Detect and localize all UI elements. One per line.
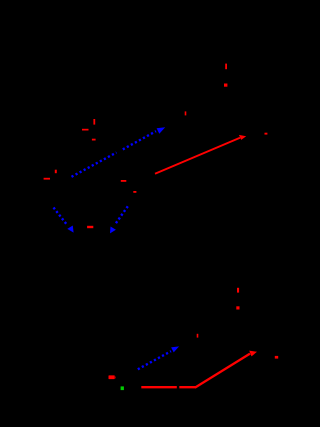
blue dashed proton-transfer arrow H2 (down-left) (110, 206, 128, 233)
molecule M6 hydroxyl O label (red) (236, 306, 239, 309)
blue dashed attack arrow M (lower-left to upper-right) (138, 346, 179, 369)
molecule M4 O-H half-bond mark (red) (185, 111, 187, 115)
molecule M5 O label (red) (121, 180, 127, 182)
molecule M7 O-H half-bond mark (red) (197, 334, 199, 338)
molecule M6 carbonyl C=O half-bond (red) (237, 288, 239, 293)
molecule M5 OH half-bond mark (red) (133, 191, 136, 193)
molecule M2 O half-bond mark (red) (92, 139, 96, 141)
HO label of attacking alcohol (red) (109, 375, 115, 379)
intermediate O label (red) (87, 226, 93, 228)
molecule M1 carbonyl C=O half-bond (red) (225, 64, 227, 70)
molecule M2 ester O label (red) (82, 129, 89, 131)
molecule M3 carbonyl half-bond (red) (55, 170, 57, 174)
Cl atom label (green) (121, 386, 124, 390)
product P1 O label (red) (265, 133, 268, 135)
red bent reaction arrow P (horizontal then up-right) (141, 351, 257, 388)
molecule M3 HO label (red) (44, 178, 50, 180)
molecule M1 hydroxyl O label (red) (224, 84, 227, 87)
product P2 O label (red) (275, 356, 278, 359)
molecule M2 carbonyl C=O half-bond (red) (93, 119, 95, 125)
blue dashed proton-transfer arrow H1 (down-right) (54, 208, 74, 233)
blue dashed attack arrow D (lower-left to upper-right) (72, 127, 166, 177)
red reaction arrow G (to upper right) (155, 135, 246, 174)
